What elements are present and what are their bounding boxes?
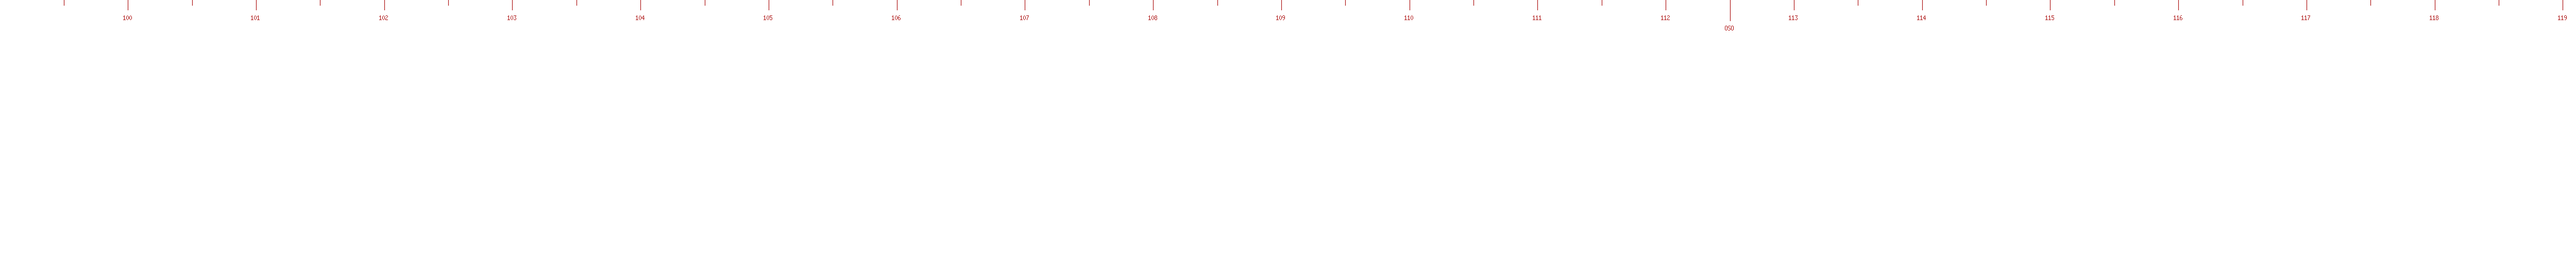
ruler minor tick 108.5: [1217, 0, 1218, 6]
ruler label 102: [379, 15, 388, 20]
ruler label 100: [123, 15, 132, 20]
ruler major tick 113: [1794, 0, 1794, 10]
ruler major tick 104: [640, 0, 641, 10]
ruler minor tick 107.5: [1089, 0, 1090, 6]
ruler minor tick 100.5: [192, 0, 193, 6]
ruler minor tick 113.5: [1858, 0, 1858, 6]
ruler label 111: [1533, 15, 1541, 20]
marker tick OSO at t=112.5: [1730, 0, 1731, 21]
ruler label 117: [2301, 15, 2310, 20]
ruler minor tick 114.5: [1986, 0, 1987, 6]
ruler major tick 107: [1025, 0, 1025, 10]
ruler major tick 114: [1922, 0, 1923, 10]
ruler major tick 101: [256, 0, 257, 10]
marker label OSO: [1725, 26, 1734, 30]
ruler major tick 109: [1281, 0, 1282, 10]
ruler label 104: [636, 15, 645, 20]
ruler minor tick 106.5: [961, 0, 961, 6]
ruler minor tick 115.5: [2114, 0, 2115, 6]
ruler label 101: [251, 15, 260, 20]
ruler minor tick 102.5: [448, 0, 449, 6]
ruler minor tick 109.5: [1345, 0, 1346, 6]
ruler label 109: [1276, 15, 1285, 20]
ruler major tick 102: [384, 0, 385, 10]
ruler major tick 103: [512, 0, 513, 10]
ruler label 103: [507, 15, 516, 20]
ruler major tick 118: [2435, 0, 2435, 10]
ruler minor tick 110.5: [1473, 0, 1474, 6]
ruler label 113: [1789, 15, 1798, 20]
ruler label 119: [2558, 15, 2567, 20]
ruler major tick 110: [1410, 0, 1410, 10]
ruler label 118: [2430, 15, 2438, 20]
ruler minor tick 99.5: [64, 0, 64, 6]
ruler major tick 100: [128, 0, 128, 10]
ruler label 114: [1917, 15, 1926, 20]
ruler label 110: [1404, 15, 1413, 20]
ruler major tick 108: [1153, 0, 1154, 10]
ruler label 115: [2045, 15, 2054, 20]
ruler label 107: [1020, 15, 1029, 20]
ruler major tick 115: [2050, 0, 2050, 10]
ruler label 112: [1661, 15, 1670, 20]
ruler major tick 119: [2563, 0, 2563, 10]
ruler minor tick 117.5: [2370, 0, 2371, 6]
ruler minor tick 105.5: [833, 0, 833, 6]
ruler major tick 105: [769, 0, 769, 10]
ruler label 108: [1148, 15, 1157, 20]
ruler minor tick 116.5: [2243, 0, 2243, 6]
ruler label 105: [764, 15, 772, 20]
ruler minor tick 101.5: [320, 0, 320, 6]
ruler major tick 117: [2307, 0, 2307, 10]
ruler major tick 111: [1537, 0, 1538, 10]
ruler minor tick 118.5: [2499, 0, 2499, 6]
ruler label 116: [2174, 15, 2182, 20]
ruler minor tick 111.5: [1602, 0, 1602, 6]
ruler minor tick 104.5: [705, 0, 705, 6]
ruler major tick 116: [2178, 0, 2179, 10]
ruler major tick 106: [897, 0, 897, 10]
ruler label 106: [892, 15, 901, 20]
ruler minor tick 103.5: [577, 0, 577, 6]
ruler major tick 112: [1666, 0, 1666, 10]
